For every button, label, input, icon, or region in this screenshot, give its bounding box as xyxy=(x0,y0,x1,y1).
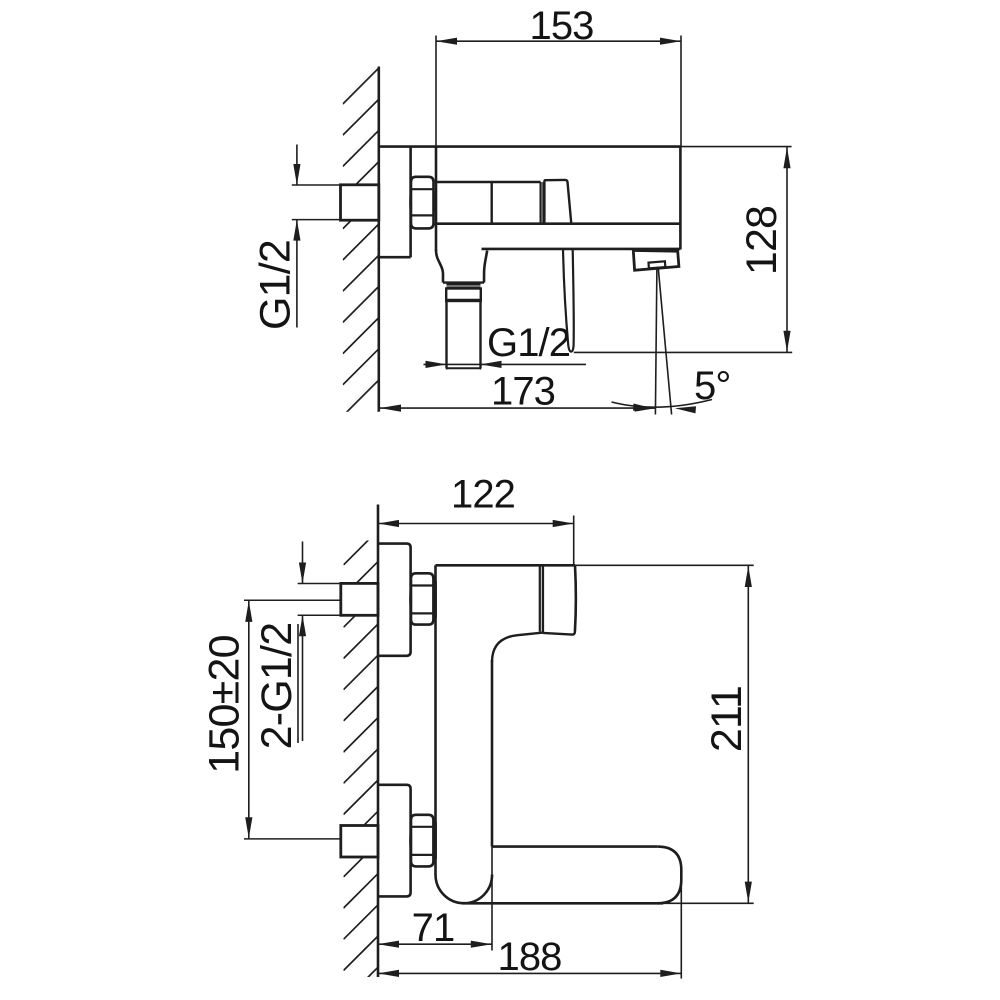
svg-text:173: 173 xyxy=(491,369,555,413)
svg-text:2-G1/2: 2-G1/2 xyxy=(253,623,301,750)
svg-text:71: 71 xyxy=(412,906,455,950)
svg-text:153: 153 xyxy=(529,4,593,48)
svg-text:G1/2: G1/2 xyxy=(487,321,570,365)
svg-text:128: 128 xyxy=(738,206,786,275)
svg-text:188: 188 xyxy=(497,935,561,979)
svg-text:150±20: 150±20 xyxy=(201,635,249,773)
svg-text:5°: 5° xyxy=(694,364,730,408)
svg-text:122: 122 xyxy=(451,473,515,517)
svg-text:G1/2: G1/2 xyxy=(252,240,300,330)
svg-text:211: 211 xyxy=(703,686,751,752)
